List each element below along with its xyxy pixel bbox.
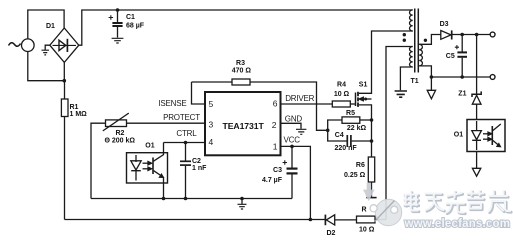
svg-text:1 MΩ: 1 MΩ xyxy=(70,111,88,118)
svg-text:R1: R1 xyxy=(70,104,79,111)
svg-text:GND: GND xyxy=(285,115,303,124)
capacitor C4 xyxy=(328,130,347,141)
svg-text:3: 3 xyxy=(209,119,214,129)
wire Z1 branch down xyxy=(476,35,478,95)
bridge D1 inner diode xyxy=(53,44,77,46)
svg-text:C1: C1 xyxy=(126,14,135,21)
node C1 top junction dot xyxy=(116,8,120,12)
svg-text:S1: S1 xyxy=(359,82,368,89)
C1 plus sign xyxy=(109,15,114,20)
wire AC bottom to node A xyxy=(28,52,65,81)
ground on rail xyxy=(240,197,244,201)
diode D2 xyxy=(324,215,326,226)
C3 plus sign xyxy=(283,160,287,164)
output terminal plus xyxy=(490,32,495,37)
wire O1 collector drop xyxy=(163,143,165,153)
svg-text:R4: R4 xyxy=(337,82,346,89)
wire R2 left drop xyxy=(91,123,106,198)
svg-text:220 nF: 220 nF xyxy=(335,145,358,152)
O1 left phototransistor xyxy=(152,158,154,175)
zener Z1 xyxy=(472,91,481,97)
optocoupler O1 right box xyxy=(467,120,505,152)
svg-text:ISENSE: ISENSE xyxy=(158,99,186,108)
svg-text:10 Ω: 10 Ω xyxy=(334,91,350,98)
watermark chinese text xyxy=(404,191,511,214)
node Z1 branch dot xyxy=(475,33,479,37)
bridge rectifier D1 diamond xyxy=(50,28,79,62)
transformer T1 core xyxy=(415,9,419,73)
svg-text:1: 1 xyxy=(273,142,278,152)
wire pin5 ISENSE stub and riser xyxy=(192,82,206,104)
svg-text:R3: R3 xyxy=(236,60,245,67)
O1 right LED xyxy=(476,121,478,131)
wire R1 bottom down to VCC rail xyxy=(64,117,66,220)
svg-text:22 kΩ: 22 kΩ xyxy=(347,125,367,132)
resistor R7 xyxy=(357,216,376,223)
svg-text:470 Ω: 470 Ω xyxy=(232,67,252,74)
wire PROTECT pin3 xyxy=(127,122,206,124)
svg-text:C5: C5 xyxy=(446,53,455,60)
resistor R6 xyxy=(368,157,374,182)
wire AC top to bridge top xyxy=(28,10,64,39)
svg-text:68 µF: 68 µF xyxy=(126,22,145,29)
svg-text:O1: O1 xyxy=(454,132,463,139)
wire R3 left xyxy=(192,81,233,83)
arrow ground secondary xyxy=(430,77,432,90)
T1 polarity dots xyxy=(403,33,406,36)
O1 right phototransistor xyxy=(491,126,493,145)
svg-text:D2: D2 xyxy=(327,230,336,237)
svg-text:R: R xyxy=(362,207,367,214)
S1 source arm and wire down xyxy=(359,105,372,157)
capacitor C2 xyxy=(185,143,187,162)
svg-text:5: 5 xyxy=(209,99,214,109)
arrow ground below O1 right xyxy=(472,168,480,176)
svg-text:PROTECT: PROTECT xyxy=(163,113,200,122)
IC U1 TEA1731T xyxy=(205,92,281,155)
capacitor C3 xyxy=(291,146,293,168)
C5 plus sign xyxy=(455,45,459,49)
optocoupler O1 left box xyxy=(127,153,168,183)
svg-text:Θ 200 kΩ: Θ 200 kΩ xyxy=(105,138,136,145)
watermark logo xyxy=(363,183,402,226)
ground below aux winding xyxy=(395,91,407,97)
wire VCC bottom rail xyxy=(65,219,326,221)
wire primary ground rail xyxy=(91,198,292,200)
wire below O1 right xyxy=(476,152,478,169)
diode D3 xyxy=(441,31,451,40)
O1 left arrows xyxy=(143,162,149,164)
node C5 bottom dot xyxy=(460,75,464,79)
wire R3 right and drop xyxy=(250,82,328,130)
ground at bridge left vertex xyxy=(45,45,50,50)
O1 right arrows xyxy=(483,133,489,135)
svg-text:DRIVER: DRIVER xyxy=(285,94,314,103)
wire secondary bottom to output minus xyxy=(419,66,490,77)
ground at GND pin xyxy=(296,129,306,134)
svg-text:TEA1731T: TEA1731T xyxy=(223,121,265,131)
resistor R5 xyxy=(342,117,360,123)
ground below C1 xyxy=(112,38,124,43)
svg-text:6: 6 xyxy=(273,99,278,109)
svg-text:CTRL: CTRL xyxy=(176,129,197,138)
svg-text:1 nF: 1 nF xyxy=(192,165,207,172)
capacitor C1 xyxy=(117,10,119,22)
svg-text:C3: C3 xyxy=(273,167,282,174)
wire secondary top to D3 xyxy=(419,35,441,45)
svg-text:O1: O1 xyxy=(145,143,154,150)
wire aux winding top drop xyxy=(386,47,413,220)
node A junction dot xyxy=(63,79,67,83)
resistor R4 xyxy=(332,101,350,107)
svg-text:R5: R5 xyxy=(346,110,355,117)
wire D3 to output plus terminal xyxy=(453,34,491,36)
resistor R2 thermistor xyxy=(106,120,127,127)
svg-text:T1: T1 xyxy=(411,78,419,85)
svg-text:D1: D1 xyxy=(46,23,55,30)
svg-text:D3: D3 xyxy=(440,21,449,28)
resistor R3 xyxy=(232,79,250,85)
svg-text:www.elecfans.com: www.elecfans.com xyxy=(404,218,511,230)
output terminal minus xyxy=(490,75,495,80)
node C5 top dot xyxy=(460,33,464,37)
svg-text:R6: R6 xyxy=(356,162,365,169)
svg-text:R2: R2 xyxy=(116,130,125,137)
wire bridge right vertex to top rail to transformer xyxy=(79,10,413,45)
svg-text:4.7 µF: 4.7 µF xyxy=(262,177,283,184)
svg-text:C4: C4 xyxy=(335,132,344,139)
wire aux bottom to ground xyxy=(400,67,412,90)
svg-text:10 Ω: 10 Ω xyxy=(359,226,375,233)
svg-text:0.25 Ω: 0.25 Ω xyxy=(344,172,366,179)
O1 left LED xyxy=(135,155,137,162)
wire VCC pin1 to bottom rail xyxy=(281,146,311,219)
resistor R1 xyxy=(64,81,66,99)
wire O1 emitter to ground rail xyxy=(163,183,165,199)
AC source xyxy=(22,39,35,52)
node secondary ground xyxy=(430,75,434,79)
wire DRIVER pin6 xyxy=(281,103,333,105)
wire node A to bridge bottom xyxy=(63,62,65,80)
T1 primary winding xyxy=(410,10,413,31)
svg-text:VCC: VCC xyxy=(284,136,301,145)
svg-text:4: 4 xyxy=(209,137,214,147)
wire R4 to gate xyxy=(350,103,355,105)
node CTRL/C2 dot xyxy=(184,141,188,145)
T1 aux winding xyxy=(410,47,413,67)
T1 secondary winding xyxy=(419,44,422,66)
S1 drain arm and wire up to primary xyxy=(359,31,413,93)
AC tilde symbol xyxy=(9,43,21,47)
svg-text:2: 2 xyxy=(272,120,277,130)
svg-text:Z1: Z1 xyxy=(458,90,466,97)
S1 body arrow xyxy=(359,98,372,100)
capacitor C5 xyxy=(461,35,463,52)
wire GND pin2 xyxy=(281,123,302,129)
transistor S1 MOSFET xyxy=(355,93,357,107)
wire CTRL pin4 xyxy=(164,142,206,144)
